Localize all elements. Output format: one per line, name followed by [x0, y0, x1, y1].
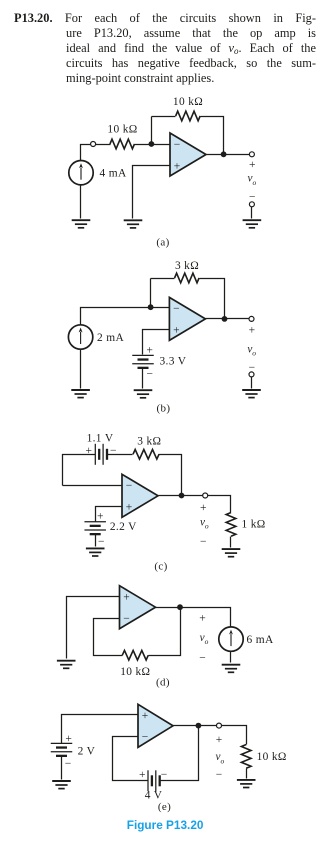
circuit (a): input terminal node — [91, 142, 96, 147]
svg-text:2 mA: 2 mA — [97, 332, 124, 344]
svg-text:+: + — [216, 734, 223, 746]
wire: R5 to ground (c) — [230, 537, 232, 548]
resistor R6 10 kOhm (feedback, horizontal) — [122, 650, 148, 660]
current source label 6 mA — [247, 634, 274, 646]
label - (battery c top) — [110, 445, 117, 457]
wire: lower terminal to ground (a) — [251, 207, 253, 219]
wire: current source top to inverting node (b) — [81, 308, 170, 325]
wire: R7 to ground (e) — [246, 769, 248, 779]
svg-text:10 kΩ: 10 kΩ — [107, 123, 137, 135]
node: output junction (c) — [179, 493, 185, 499]
wire: battery to ground (c) — [95, 535, 97, 547]
caption (b) — [157, 403, 171, 415]
svg-text:−: − — [142, 732, 149, 744]
svg-text:(b): (b) — [157, 403, 171, 415]
svg-text:−: − — [98, 536, 105, 548]
resistor R7 value label 10 kOhm — [257, 751, 287, 763]
current source label 4 mA — [100, 167, 127, 179]
wire: noninverting input to battery (b) — [143, 330, 170, 355]
ground: battery (e) — [52, 781, 71, 789]
svg-text:4 mA: 4 mA — [100, 167, 127, 179]
resistor R2 value label 10 kOhm — [173, 96, 203, 108]
wire: op-amp output (c) — [159, 496, 231, 513]
svg-text:+: + — [126, 502, 133, 514]
wire: op-amp output (b) — [206, 318, 249, 320]
wire: feedback top left segment (a) — [152, 116, 176, 118]
wire: op-amp output (e) — [173, 725, 217, 727]
battery B4 value label 2 V — [78, 746, 96, 758]
output terminal (e) — [217, 723, 222, 728]
battery B3 value label 2.2 V — [110, 521, 137, 533]
label + (output b) — [249, 325, 256, 337]
svg-text:+: + — [200, 502, 207, 514]
ground: current source (a) — [72, 220, 91, 228]
ground: current source (d) — [222, 665, 241, 673]
svg-text:(a): (a) — [156, 236, 169, 248]
wire: op-amp output (a) — [207, 154, 250, 156]
svg-text:+: + — [249, 325, 256, 337]
svg-text:2 V: 2 V — [78, 746, 96, 758]
ground: load (e) — [237, 780, 256, 788]
wire R1 to inverting-input node — [135, 144, 171, 146]
battery B5 value label 4 V — [145, 790, 163, 802]
battery B2 1.1 V (horizontal) — [95, 444, 107, 465]
wire: feedback left riser (a) — [151, 117, 153, 145]
label vo (c) — [200, 516, 209, 530]
wire: feedback left riser (b) — [150, 279, 152, 308]
ground: load (c) — [222, 549, 241, 557]
wire: terminal to load resistor (e) — [222, 726, 247, 745]
caption (a) — [156, 236, 169, 248]
current source 6 mA (d) — [219, 627, 243, 651]
svg-text:10 kΩ: 10 kΩ — [173, 96, 203, 108]
wire: top-left corner run (c) — [63, 455, 96, 486]
label - (output c) — [200, 536, 207, 548]
output terminal - (b) — [249, 372, 254, 377]
ground: output (a) — [243, 220, 262, 228]
caption (e) — [158, 801, 171, 813]
svg-text:+: + — [97, 510, 104, 522]
label + (battery e bottom) — [139, 769, 146, 781]
svg-text:+: + — [146, 344, 153, 356]
current source 4 mA (a) — [69, 161, 93, 185]
op-amp U-c — [122, 474, 158, 517]
resistor R2 10 kOhm (feedback, horizontal) — [176, 111, 201, 121]
wire: R4 to output drop (c) — [159, 455, 182, 496]
op-amp U-d — [120, 586, 156, 629]
svg-text:vo: vo — [247, 343, 256, 357]
op-amp U-a — [170, 133, 206, 176]
label + (output d) — [199, 613, 206, 625]
wire: bottom rail right + riser to output (e) — [160, 726, 199, 781]
svg-text:vo: vo — [248, 173, 257, 187]
node: output junction (a) — [221, 151, 227, 157]
output terminal + (a) — [249, 152, 254, 157]
label + (battery c top) — [86, 445, 93, 457]
wire: battery to ground (b) — [142, 369, 144, 389]
svg-text:2.2 V: 2.2 V — [110, 521, 137, 533]
label - (output a) — [249, 191, 256, 203]
wire: battery to ground (e) — [61, 757, 63, 780]
svg-text:+: + — [86, 445, 93, 457]
svg-text:10 kΩ: 10 kΩ — [257, 751, 287, 763]
svg-text:−: − — [200, 536, 207, 548]
resistor R3 3 kOhm (feedback, horizontal) — [175, 273, 200, 283]
circuit (a): wire from current source to input terminal — [81, 145, 91, 161]
label + (output c) — [200, 502, 207, 514]
current source label 2 mA — [97, 332, 124, 344]
op-amp U-e — [138, 704, 173, 747]
battery B3 2.2 V (vertical) — [84, 522, 106, 534]
svg-text:1.1 V: 1.1 V — [87, 433, 114, 445]
svg-text:+: + — [199, 613, 206, 625]
label + (battery e left) — [65, 733, 72, 745]
svg-text:1 kΩ: 1 kΩ — [242, 519, 266, 531]
svg-text:−: − — [174, 139, 181, 151]
label vo (b) — [247, 343, 256, 357]
svg-text:+: + — [65, 733, 72, 745]
label + (battery b) — [146, 344, 153, 356]
label - (output e) — [216, 769, 223, 781]
caption (c) — [154, 561, 167, 573]
svg-text:−: − — [110, 445, 117, 457]
wire: noninverting input to ground run (d) — [67, 597, 120, 659]
resistor R5 value label 1 kOhm — [242, 519, 266, 531]
figure caption — [0, 818, 325, 832]
wire: feedback top right segment + drop to output (a) — [201, 117, 224, 155]
svg-text:−: − — [126, 480, 133, 492]
ground: op-amp + input (a) — [124, 220, 143, 228]
resistor R6 value label 10 kOhm — [120, 666, 150, 678]
svg-text:+: + — [174, 160, 181, 172]
svg-text:4 V: 4 V — [145, 790, 163, 802]
label - (output b) — [249, 362, 256, 374]
svg-text:−: − — [65, 758, 72, 770]
svg-text:+: + — [249, 159, 256, 171]
svg-text:6 mA: 6 mA — [247, 634, 274, 646]
output terminal (c) — [203, 493, 208, 498]
node: output junction (b) — [222, 316, 228, 322]
label + (output a) — [249, 159, 256, 171]
label - (output d) — [199, 652, 206, 664]
wire: battery to R4 (c) — [107, 454, 133, 456]
svg-text:(e): (e) — [158, 801, 171, 813]
current source 2 mA (b) — [68, 325, 92, 349]
ground: current source (b) — [71, 390, 90, 398]
wire: current source to ground (d) — [230, 652, 232, 663]
svg-text:+: + — [139, 769, 146, 781]
svg-text:3 kΩ: 3 kΩ — [137, 436, 161, 448]
resistor R4 3 kOhm (horizontal) — [133, 450, 159, 460]
wire: feedback top left segment (b) — [151, 278, 175, 280]
resistor R5 1 kOhm (vertical load) — [226, 513, 236, 537]
svg-text:3 kΩ: 3 kΩ — [175, 260, 199, 272]
wire: noninverting input to ground run (a) — [133, 166, 171, 219]
svg-text:−: − — [173, 303, 180, 315]
op-amp U-b — [169, 297, 205, 340]
node: inverting input junction (a) — [149, 141, 155, 147]
svg-text:+: + — [173, 325, 180, 337]
svg-text:10 kΩ: 10 kΩ — [120, 666, 150, 678]
svg-text:−: − — [216, 769, 223, 781]
battery B5 4 V (horizontal) — [148, 770, 160, 791]
svg-text:−: − — [123, 613, 130, 625]
ground: op-amp + input (d) — [57, 661, 76, 669]
resistor R3 value label 3 kOhm — [175, 260, 199, 272]
battery B2 value label 1.1 V — [87, 433, 114, 445]
wire: current source to ground (b) — [80, 350, 82, 389]
resistor R1 10 kOhm (input, horizontal) — [110, 139, 135, 149]
svg-text:−: − — [147, 369, 154, 381]
wire: feedback rail right + riser to output (d) — [149, 608, 181, 656]
label vo (e) — [216, 751, 225, 765]
node: output junction (d) — [177, 604, 183, 610]
wire: current source to ground (a) — [80, 185, 82, 219]
wire: noninverting input to battery (c) — [96, 507, 123, 522]
battery B1 value label 3.3 V — [160, 356, 187, 368]
label - (battery c bottom) — [98, 536, 105, 548]
node: inverting input junction (b) — [148, 304, 154, 310]
resistor R1 value label 10 kOhm — [107, 123, 137, 135]
label + (output e) — [216, 734, 223, 746]
battery B4 2 V (vertical) — [51, 743, 73, 755]
svg-text:+: + — [123, 592, 130, 604]
svg-text:(c): (c) — [154, 561, 167, 573]
battery B1 3.3 V (vertical) — [132, 355, 154, 367]
svg-text:−: − — [161, 769, 168, 781]
svg-text:vo: vo — [216, 751, 225, 765]
label - (battery e bottom) — [161, 769, 168, 781]
output terminal - (a) — [249, 202, 254, 207]
wire: noninverting input to battery (e) — [62, 715, 139, 744]
ground: output (b) — [242, 390, 261, 398]
svg-text:vo: vo — [200, 632, 209, 646]
label vo (a) — [248, 173, 257, 187]
label - (battery b) — [147, 369, 154, 381]
label vo (d) — [200, 632, 209, 646]
wire terminal to R1 — [96, 144, 111, 146]
label - (battery e left) — [65, 758, 72, 770]
label + (battery c bottom) — [97, 510, 104, 522]
svg-text:vo: vo — [200, 516, 209, 530]
ground: battery (c) — [86, 548, 105, 556]
wire: lower terminal to ground (b) — [251, 377, 253, 389]
problem statement text — [14, 11, 316, 86]
ground: battery (b) — [134, 390, 153, 398]
wire: op-amp output to current source (d) — [156, 608, 231, 627]
wire: inverting input run (c) — [63, 485, 123, 487]
wire: inverting input to bottom rail (e) — [113, 737, 149, 781]
wire: feedback right segment + drop to output (b) — [200, 279, 225, 319]
resistor R4 value label 3 kOhm — [137, 436, 161, 448]
svg-text:−: − — [199, 652, 206, 664]
svg-text:(d): (d) — [156, 676, 170, 688]
node: output junction (e) — [196, 723, 202, 729]
svg-text:+: + — [142, 710, 149, 722]
wire: inverting input to feedback rail (d) — [94, 619, 123, 656]
resistor R7 10 kOhm (vertical load) — [241, 745, 251, 769]
svg-text:3.3 V: 3.3 V — [160, 356, 187, 368]
output terminal + (b) — [249, 316, 254, 321]
caption (d) — [156, 676, 170, 688]
